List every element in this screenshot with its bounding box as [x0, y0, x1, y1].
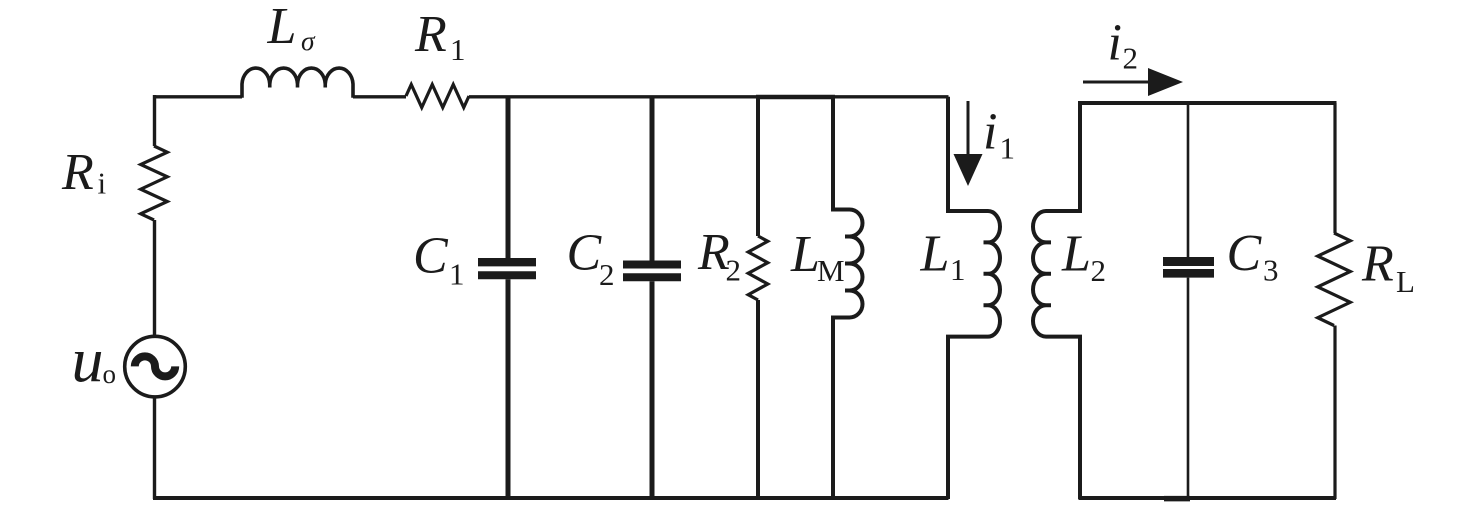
svg-text:L: L	[920, 226, 950, 283]
wire left rail bottom	[153, 398, 156, 500]
inductor L2 coil	[1033, 211, 1051, 337]
svg-text:C: C	[567, 225, 603, 282]
current arrow i1	[967, 101, 970, 158]
svg-text:L: L	[1396, 264, 1415, 299]
wire bottom rail secondary	[1079, 496, 1337, 500]
resistor Ri	[141, 146, 168, 220]
inductor LM lead top	[833, 97, 850, 210]
svg-text:2: 2	[1123, 40, 1139, 75]
capacitor C1 plates	[478, 258, 536, 266]
resistor RL zigzag	[1318, 233, 1351, 326]
inductor L2 lead top	[1046, 103, 1080, 211]
resistor R2 lead bottom	[756, 300, 760, 499]
inductor L2 lead bottom	[1046, 337, 1080, 499]
svg-text:i: i	[98, 166, 107, 201]
capacitor C1 lead top	[506, 97, 511, 259]
svg-text:R: R	[61, 144, 94, 201]
resistor RL lead top	[1333, 103, 1336, 233]
inductor LM lead bottom	[833, 318, 850, 500]
wire left rail top	[153, 95, 156, 146]
capacitor C2 lead bottom	[650, 281, 655, 499]
wire top rail main segment	[469, 95, 949, 98]
svg-text:R: R	[414, 6, 447, 63]
svg-text:2: 2	[726, 253, 742, 288]
svg-text:i: i	[1108, 14, 1122, 71]
capacitor C1 lead bottom	[506, 279, 511, 499]
svg-text:L: L	[790, 226, 820, 283]
junction C3 bottom	[1164, 496, 1190, 502]
resistor RL lead bottom	[1333, 326, 1336, 500]
svg-text:2: 2	[599, 257, 615, 292]
svg-text:1: 1	[450, 32, 466, 67]
svg-text:i: i	[983, 104, 997, 161]
capacitor C3 plates	[1163, 257, 1214, 266]
capacitor C2 plates	[623, 261, 681, 269]
svg-text:3: 3	[1263, 253, 1279, 288]
svg-text:R: R	[1361, 236, 1394, 293]
source U circle	[125, 336, 186, 397]
inductor L1 lead bottom	[948, 337, 988, 499]
current arrow i2	[1083, 81, 1152, 84]
svg-text:L: L	[1061, 226, 1091, 283]
svg-text:L: L	[267, 0, 297, 55]
inductor L1 lead top	[948, 97, 988, 211]
resistor R2 lead top	[756, 97, 760, 237]
wire between L_sigma and R1	[353, 95, 406, 98]
svg-text:C: C	[413, 228, 449, 285]
capacitor C2 lead top	[650, 97, 655, 261]
resistor R2 zigzag	[748, 236, 768, 300]
svg-text:u: u	[72, 325, 104, 396]
svg-text:C: C	[1227, 225, 1263, 282]
wire top rail left segment	[153, 95, 242, 98]
svg-text:σ: σ	[301, 25, 316, 56]
wire top rail secondary	[1078, 101, 1337, 105]
wire top rail thick part R2-LM	[756, 95, 835, 99]
resistor R1	[406, 85, 469, 108]
inductor LM coil	[845, 210, 863, 318]
inductor L1 coil	[984, 211, 1001, 337]
wire left rail middle	[153, 220, 156, 336]
svg-text:1: 1	[950, 252, 966, 287]
svg-text:1: 1	[449, 257, 465, 292]
svg-text:2: 2	[1091, 253, 1107, 288]
capacitor C3 lead bottom	[1187, 278, 1190, 499]
inductor L_sigma	[242, 68, 353, 98]
source sine wave	[135, 356, 175, 376]
svg-text:1: 1	[1000, 130, 1016, 165]
capacitor C3 lead top	[1187, 103, 1190, 257]
svg-text:M: M	[817, 253, 845, 288]
wire bottom rail primary	[153, 496, 949, 500]
svg-text:o: o	[103, 359, 117, 389]
